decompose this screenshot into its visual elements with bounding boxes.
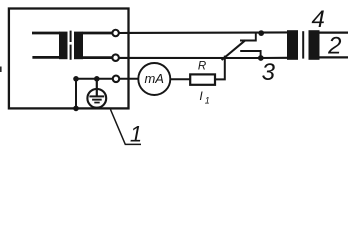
svg-text:1: 1 (205, 95, 210, 105)
svg-text:mA: mA (144, 71, 164, 86)
svg-text:3: 3 (262, 59, 276, 86)
svg-text:4: 4 (312, 6, 325, 33)
svg-text:R: R (198, 60, 206, 72)
svg-text:1: 1 (130, 121, 142, 146)
svg-text:2: 2 (327, 32, 341, 59)
